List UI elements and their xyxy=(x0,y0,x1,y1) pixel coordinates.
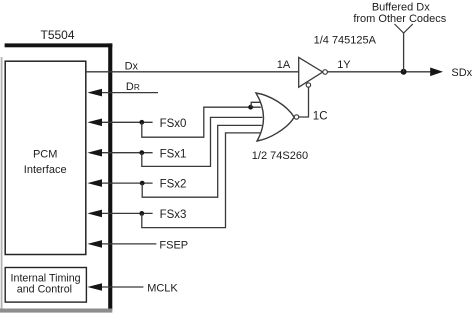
svg-text:1A: 1A xyxy=(277,59,291,71)
wire DR stub xyxy=(98,92,158,94)
svg-text:1/4 745125A: 1/4 745125A xyxy=(314,35,377,47)
wire FSx0 xyxy=(98,121,153,123)
wire Dx from PCM to buffer input xyxy=(86,71,299,73)
svg-text:T5504: T5504 xyxy=(41,28,75,42)
svg-text:from Other Codecs: from Other Codecs xyxy=(353,13,446,25)
arrowhead FSEP into PCM xyxy=(87,240,102,248)
buffer U1 triangle (1/4 745125A) xyxy=(299,57,323,87)
buffer output bubble xyxy=(323,70,328,75)
arrowhead SDx xyxy=(430,68,443,77)
svg-text:Buffered Dx: Buffered Dx xyxy=(372,1,430,13)
wire MCLK stub xyxy=(98,286,143,288)
svg-text:Internal Timing: Internal Timing xyxy=(11,272,81,284)
svg-text:FSEP: FSEP xyxy=(159,239,188,251)
svg-text:Dx: Dx xyxy=(125,60,139,72)
wire SDx output xyxy=(327,71,432,73)
svg-text:1C: 1C xyxy=(313,110,328,122)
wire tie jog to NOR input 1 xyxy=(251,102,260,107)
wire buffered Dx drop xyxy=(403,33,405,72)
arrowhead FSx3 into PCM xyxy=(87,210,102,218)
block Internal Timing and Control box xyxy=(5,268,86,303)
wire FSx3 xyxy=(98,212,153,214)
junction dot FSx3 xyxy=(139,211,144,216)
callout pointer V xyxy=(395,24,413,33)
arrowhead DR into PCM xyxy=(87,89,102,97)
chip T5504 top border xyxy=(5,43,113,47)
junction dot NOR input tie xyxy=(248,105,253,110)
svg-text:FSx3: FSx3 xyxy=(160,209,187,221)
arrowhead MCLK into Internal Timing xyxy=(87,283,102,291)
junction dot SDx bus xyxy=(401,69,407,75)
svg-text:FSx1: FSx1 xyxy=(160,148,187,160)
wire FSx0 branch to NOR input 2 xyxy=(142,107,261,137)
wire NOR output to buffer control xyxy=(299,87,309,117)
junction dot FSx0 xyxy=(139,120,144,125)
svg-text:MCLK: MCLK xyxy=(147,282,178,294)
svg-text:SDx: SDx xyxy=(451,67,472,79)
arrowhead FSx1 into PCM xyxy=(87,149,102,157)
wire FSx2 branch to NOR input 4 xyxy=(142,125,262,197)
wire FSx3 branch to NOR input 5 xyxy=(142,133,260,228)
chip T5504 left border (faint) xyxy=(1,57,3,310)
wire FSx1 branch to NOR input 3 xyxy=(142,117,263,166)
NOR output bubble xyxy=(294,115,298,119)
svg-text:and Control: and Control xyxy=(17,284,72,296)
chip T5504 right border xyxy=(108,43,112,310)
svg-text:1Y: 1Y xyxy=(337,59,351,71)
arrowhead FSx0 into PCM xyxy=(87,119,102,127)
svg-text:PCM: PCM xyxy=(33,148,57,160)
NOR gate U2 body (1/2 74S260) xyxy=(256,93,294,141)
wire FSEP stub xyxy=(98,243,156,245)
junction dot FSx1 xyxy=(139,150,144,155)
svg-text:DR: DR xyxy=(126,81,140,93)
svg-text:FSx0: FSx0 xyxy=(160,118,187,130)
block PCM Interface box xyxy=(5,61,86,254)
svg-text:Interface: Interface xyxy=(24,164,67,176)
wire FSx2 xyxy=(98,182,153,184)
wire FSx1 xyxy=(98,152,153,154)
svg-text:1/2 74S260: 1/2 74S260 xyxy=(252,150,308,162)
chip T5504 bottom border (grey) xyxy=(0,309,112,313)
junction dot FSx2 xyxy=(140,181,145,186)
svg-text:FSx2: FSx2 xyxy=(160,179,187,191)
arrowhead FSx2 into PCM xyxy=(87,179,102,187)
buffer control bubble xyxy=(306,83,310,87)
